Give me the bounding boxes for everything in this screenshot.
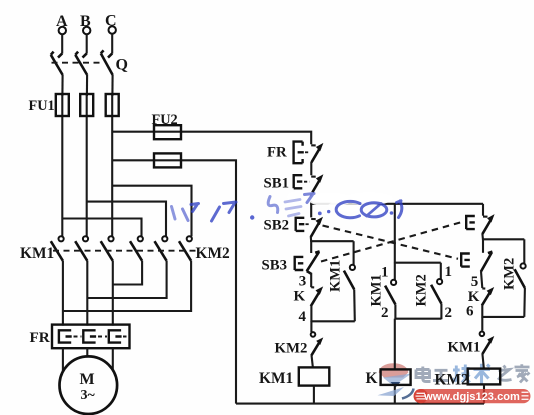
svg-text:M: M: [80, 371, 95, 388]
svg-text:SB2: SB2: [264, 218, 290, 234]
wire phase A main vertical: [61, 94, 63, 236]
wire KM2 interlock to coil KM1: [312, 355, 313, 368]
KM main contacts linkage dashed: [53, 250, 197, 252]
svg-text:3: 3: [299, 274, 307, 290]
button SB2 linked contact (right): [461, 252, 492, 272]
svg-text:KM2: KM2: [196, 245, 230, 262]
wire coil KM2 to bottom rail: [483, 384, 485, 403]
button SB1 blade: [311, 176, 316, 178]
thermal contact FR actuator: [294, 142, 304, 164]
svg-text:KM2: KM2: [502, 258, 518, 290]
wire SB1 to node A: [310, 195, 312, 205]
FR heater 1: [59, 330, 72, 342]
wire node 6 to KM1 interlock: [481, 317, 483, 331]
wire cross link c1-c3: [63, 310, 191, 312]
thermal relay FR box: [52, 325, 130, 349]
wire SB3 to contact K: [310, 273, 312, 287]
wire node 4 rail: [311, 320, 354, 322]
wire node B to SB3: [310, 241, 312, 253]
svg-text:KM1: KM1: [259, 370, 293, 387]
wire phase C drop to switch: [111, 34, 113, 54]
fuse FU1 pole3: [106, 94, 119, 116]
svg-text:SB1: SB1: [264, 176, 290, 192]
thermal contact FR blade: [311, 144, 316, 146]
wire FR to SB1: [310, 162, 312, 175]
button SB3 linked contact (right NC): [466, 214, 494, 234]
svg-text:KM2: KM2: [275, 341, 308, 357]
wire phase C tap to KM2: [112, 186, 191, 237]
FR linkage dashes: [74, 336, 127, 338]
svg-text:1: 1: [445, 264, 453, 280]
KM2 main contact 1: [130, 236, 143, 261]
wire middle branch from node A: [394, 204, 396, 263]
node C terminal: [105, 13, 117, 34]
switch Q pole 2: [75, 52, 87, 75]
contact KM2 interlock (NC): [311, 332, 324, 355]
char 电: [416, 367, 431, 382]
switch Q pole 1: [51, 52, 63, 75]
wire KM1 c2 down: [86, 261, 88, 326]
fuse FU1 pole1: [56, 94, 69, 116]
svg-text:KM1: KM1: [369, 274, 385, 306]
wire middle to coil K: [394, 319, 396, 370]
svg-text:KM1: KM1: [448, 340, 481, 356]
wire KM2 c1 down: [141, 261, 143, 286]
svg-text:KM1: KM1: [328, 260, 344, 292]
wire node 4 to KM2 interlock: [310, 321, 312, 332]
KM2 main contact 3: [179, 236, 192, 261]
wire node C down: [482, 239, 484, 253]
svg-text:K: K: [366, 370, 378, 387]
wire cross link c2-c2: [87, 297, 166, 299]
svg-text:6: 6: [466, 303, 474, 319]
wire pole1 to fuse: [61, 75, 63, 96]
node A terminal: [56, 13, 68, 34]
contact KM1 interlock (NC right): [480, 332, 495, 355]
wire KM1 c1 down: [62, 261, 64, 326]
svg-text:SB3: SB3: [262, 258, 288, 274]
wire SB2 to node B: [310, 237, 313, 242]
char 术: [474, 364, 491, 384]
wire node C rail: [483, 238, 524, 240]
wire pole3 to fuse: [111, 75, 113, 96]
char 家: [515, 364, 530, 382]
watermark white-out blobs: [287, 191, 393, 213]
wire KM1 interlock to coil KM2: [482, 354, 484, 369]
wire KM2 c3 down: [190, 261, 192, 312]
contact K (right): [482, 287, 494, 305]
wire FR to motor 1: [62, 348, 64, 376]
FR heater 3: [109, 330, 122, 342]
linkage dashed SB2 to right contact: [323, 226, 459, 259]
wire node 6 rail: [482, 316, 524, 318]
wire KM2 c2 down: [166, 261, 168, 299]
svg-text:2: 2: [445, 305, 453, 321]
KM1 main contact 3: [101, 236, 114, 261]
svg-text:KM2: KM2: [435, 372, 469, 389]
svg-text:Q: Q: [116, 57, 128, 74]
node B terminal: [80, 13, 91, 34]
coil KM2: [468, 369, 501, 385]
wire node B rail: [311, 240, 353, 242]
svg-text:5: 5: [471, 274, 479, 290]
fuse FU2 upper: [154, 125, 181, 139]
char 工: [433, 370, 449, 380]
watermark blue scribble: [172, 194, 402, 222]
seal contact KM2 branch (far right): [515, 239, 526, 317]
wire to contact K right: [481, 271, 482, 288]
KM2 main contact 2: [155, 236, 168, 261]
char 之: [498, 366, 512, 381]
wire phase C main vertical: [111, 94, 113, 236]
wire middle split rail top: [395, 262, 441, 264]
wire pole2 to fuse: [86, 75, 88, 96]
wire KM1 c3 down: [112, 261, 114, 326]
svg-text:KM1: KM1: [20, 245, 54, 262]
button SB2 E actuator: [296, 217, 305, 231]
wire K to node 4: [310, 306, 312, 322]
FR heater 2: [83, 330, 96, 342]
svg-text:3~: 3~: [81, 388, 96, 403]
svg-text:FU1: FU1: [29, 98, 55, 114]
wire FR to motor 3: [112, 348, 114, 376]
wire right branch from node A: [482, 204, 484, 216]
watermark red band www.dgjs123.com: [414, 389, 531, 403]
wire node A rail: [311, 203, 483, 205]
switch Q linkage dashed: [52, 62, 104, 64]
wire phase A tap to KM2: [62, 219, 141, 237]
char 技: [453, 365, 470, 383]
button SB3 E actuator: [295, 256, 304, 270]
wire control tap 1: [112, 132, 311, 145]
wire node A to SB2: [310, 204, 312, 218]
thermal contact FR dashes: [305, 151, 310, 153]
contact K (left): [311, 286, 323, 306]
KM1 main contact 1: [51, 236, 64, 261]
wire bottom rail: [236, 403, 484, 405]
wire control tap 2: [112, 160, 236, 403]
wire right to node C: [481, 234, 484, 240]
wire middle split rail bottom: [395, 318, 442, 320]
KM1 main contact 2: [75, 236, 88, 261]
seal contact KM1 branch: [344, 241, 355, 321]
svg-text:KM2: KM2: [414, 274, 430, 306]
coil KM1: [299, 367, 330, 385]
watermark logo top part: [379, 363, 412, 387]
svg-text:4: 4: [299, 309, 307, 325]
watermark gray text 电工技术之家: [416, 364, 530, 384]
wire coil KM1 to bottom rail: [313, 386, 315, 404]
wire phase B main vertical: [86, 94, 88, 236]
wire FR to motor 2: [86, 348, 88, 360]
wire cross link c3-c1: [113, 283, 142, 285]
svg-text:FR: FR: [267, 145, 287, 161]
switch Q pole 3: [101, 50, 113, 75]
wire coil K to bottom rail: [394, 385, 396, 404]
aux contact KM1 (middle left): [385, 263, 396, 320]
fuse FU2 lower: [154, 153, 181, 167]
button SB1 E actuator: [294, 174, 303, 188]
coil K: [381, 369, 411, 385]
svg-text:www.dgjs123.com: www.dgjs123.com: [423, 391, 520, 403]
svg-text:FR: FR: [30, 329, 51, 346]
svg-text:K: K: [294, 289, 306, 305]
wire phase A drop to switch: [61, 34, 63, 53]
button SB2 blade: [311, 218, 316, 220]
fuse FU1 pole2: [80, 94, 93, 116]
wire phase B tap to KM2: [87, 202, 166, 237]
linkage dashed SB3 to right contact: [321, 222, 463, 262]
wire K right to node 6: [481, 305, 483, 318]
aux contact KM2 (middle right): [431, 263, 442, 320]
motor M circle: [60, 356, 118, 414]
wire phase B drop to switch: [86, 34, 88, 53]
watermark logo bottom part: [378, 387, 414, 399]
button SB3 blade: [307, 251, 320, 273]
button SB1 dashes: [304, 181, 310, 183]
